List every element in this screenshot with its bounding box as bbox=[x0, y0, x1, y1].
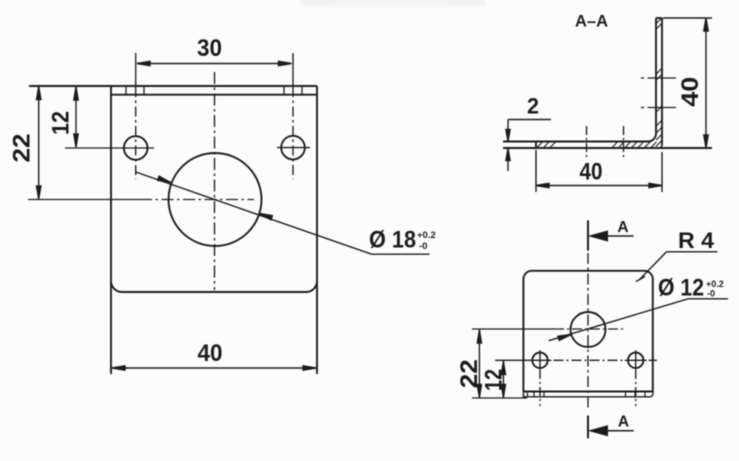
svg-text:12: 12 bbox=[48, 111, 75, 135]
svg-text:2: 2 bbox=[527, 94, 539, 119]
svg-text:Ø 12: Ø 12 bbox=[658, 275, 704, 302]
svg-text:-0: -0 bbox=[419, 241, 427, 252]
svg-text:40: 40 bbox=[580, 159, 603, 186]
svg-text:22: 22 bbox=[456, 359, 483, 388]
svg-text:40: 40 bbox=[198, 340, 223, 367]
svg-text:Ø 18: Ø 18 bbox=[369, 227, 416, 254]
svg-text:+0.2: +0.2 bbox=[706, 279, 724, 289]
svg-text:30: 30 bbox=[197, 35, 222, 62]
svg-text:+0.2: +0.2 bbox=[417, 230, 436, 241]
svg-text:22: 22 bbox=[9, 134, 36, 163]
svg-text:A–A: A–A bbox=[575, 13, 608, 31]
svg-text:R 4: R 4 bbox=[678, 228, 715, 253]
svg-text:40: 40 bbox=[677, 77, 704, 107]
svg-text:12: 12 bbox=[481, 369, 508, 391]
svg-text:A: A bbox=[617, 219, 628, 236]
svg-text:-0: -0 bbox=[707, 289, 715, 299]
svg-text:A: A bbox=[618, 413, 629, 430]
